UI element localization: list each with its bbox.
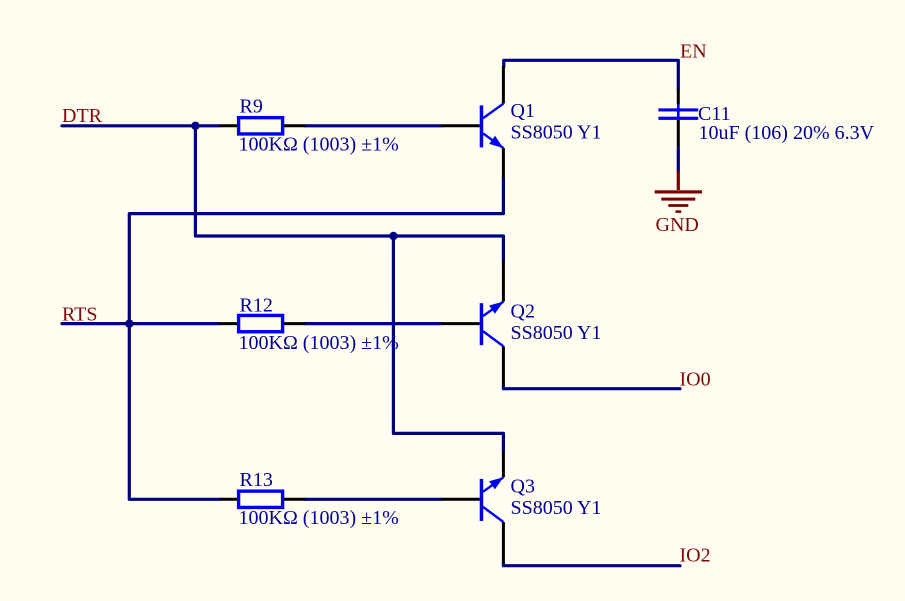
Q1 collector line	[483, 104, 504, 119]
Q2 pin	[502, 260, 505, 302]
svg-text:SS8050 Y1: SS8050 Y1	[511, 322, 602, 344]
svg-text:100KΩ (1003) ±1%: 100KΩ (1003) ±1%	[239, 134, 399, 156]
svg-text:Q2: Q2	[511, 300, 535, 322]
R12 pin 1	[220, 322, 237, 325]
C11 pin 2	[677, 120, 680, 148]
ground bar 3	[668, 204, 688, 207]
C11 pin 1	[677, 89, 680, 105]
Q1 base bar	[480, 105, 484, 147]
ground bar 2	[661, 198, 695, 201]
junction RTS	[125, 319, 133, 327]
ground bar 1	[655, 190, 702, 193]
Q3 pin	[502, 522, 505, 563]
svg-text:100KΩ (1003) ±1%: 100KΩ (1003) ±1%	[239, 507, 399, 529]
R9 body	[239, 118, 283, 134]
Q2 emitter arrow	[489, 302, 503, 314]
svg-text:DTR: DTR	[62, 105, 103, 127]
ground	[655, 171, 702, 236]
svg-text:Q1: Q1	[511, 100, 535, 122]
Q2 emitter line	[483, 302, 504, 317]
Q2 base bar	[480, 303, 484, 345]
svg-text:100KΩ (1003) ±1%: 100KΩ (1003) ±1%	[239, 332, 399, 354]
svg-text:SS8050 Y1: SS8050 Y1	[511, 497, 602, 519]
transistor Q1	[441, 66, 601, 178]
svg-text:R9: R9	[240, 95, 263, 117]
svg-text:Q3: Q3	[511, 475, 535, 497]
resistor R12	[220, 295, 399, 354]
C11 bottom plate	[658, 117, 698, 120]
svg-text:SS8050 Y1: SS8050 Y1	[511, 122, 602, 144]
Q2 collector line	[483, 331, 504, 346]
Q1 base pin	[441, 124, 480, 127]
resistor R9	[220, 95, 399, 155]
ground stem	[677, 171, 680, 190]
wire R13 to Q3 base	[305, 498, 441, 501]
wire DTR down and across to Q2 emitter	[195, 126, 503, 260]
R12 pin 2	[284, 322, 305, 325]
transistor Q2	[441, 260, 601, 386]
junction DTR	[191, 122, 199, 130]
R9 pin 2	[284, 124, 305, 127]
wire R12 to Q2 base	[305, 322, 441, 325]
R13 body	[239, 491, 283, 507]
wire Q2 collector to IO0	[503, 386, 680, 389]
Q1 pin	[502, 148, 505, 178]
svg-text:GND: GND	[656, 214, 699, 236]
Q3 base bar	[480, 479, 484, 521]
svg-text:IO0: IO0	[680, 369, 711, 391]
Q3 base pin	[441, 498, 480, 501]
R12 body	[239, 315, 283, 331]
svg-text:10uF (106) 20% 6.3V: 10uF (106) 20% 6.3V	[699, 122, 875, 144]
Q3 emitter line	[483, 477, 504, 492]
svg-text:EN: EN	[680, 41, 707, 63]
Q1 emitter arrow	[489, 136, 503, 148]
svg-text:IO2: IO2	[680, 544, 711, 566]
wire C11 to ground	[677, 148, 680, 173]
wire Q1 emitter to RTS column	[129, 178, 503, 499]
wire RTS horizontal	[62, 322, 220, 325]
C11 center stub	[677, 104, 680, 118]
junction mid	[389, 232, 397, 240]
wire DTR horizontal	[62, 124, 220, 127]
Q2 pin	[502, 346, 505, 386]
R9 pin 1	[220, 124, 237, 127]
svg-text:R12: R12	[240, 295, 273, 317]
Q3 pin	[502, 451, 505, 477]
C11 top plate	[658, 108, 698, 111]
Q1 emitter line	[483, 133, 504, 148]
R13 pin 2	[284, 498, 305, 501]
transistor Q3	[441, 451, 601, 563]
R13 pin 1	[220, 498, 237, 501]
Q2 base pin	[441, 322, 480, 325]
Q3 collector line	[483, 507, 504, 522]
Q3 emitter arrow	[489, 477, 503, 489]
capacitor C11	[658, 89, 874, 148]
Q1 pin	[502, 66, 505, 104]
svg-text:R13: R13	[240, 469, 273, 491]
wire R9 to Q1 base	[305, 124, 441, 127]
wire down to Q3 emitter	[393, 236, 503, 451]
ground bar 4	[676, 210, 682, 213]
wire Q3 collector to IO2	[503, 563, 680, 566]
wire EN net	[504, 60, 679, 88]
resistor R13	[220, 469, 399, 529]
